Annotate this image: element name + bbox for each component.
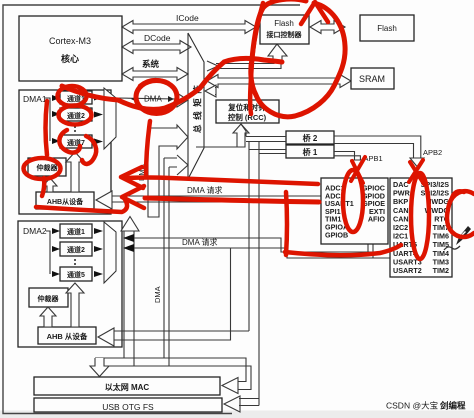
DMA2 channel 1 box bbox=[60, 224, 92, 238]
SRAM box bbox=[351, 68, 394, 89]
red long S stroke under DMA circle rising through matrix bbox=[62, 58, 282, 109]
pair B vertical lines bbox=[164, 158, 177, 366]
matrix left arrowhead a bbox=[177, 93, 188, 107]
DMA2 channel 5 box bbox=[60, 267, 92, 281]
svg-text:桥 1: 桥 1 bbox=[303, 147, 318, 157]
outer frame bbox=[3, 5, 300, 414]
svg-text:通道2: 通道2 bbox=[67, 111, 85, 120]
down arrow into MAC bbox=[90, 358, 109, 377]
DMA1 channel 2 box bbox=[60, 108, 92, 121]
horizontal lines to MAC down arrow and AHB verticals bbox=[95, 358, 251, 390]
DMA2 AHB slave box bbox=[38, 327, 96, 344]
red loop arbiter1 bbox=[24, 158, 61, 179]
Flash box bbox=[360, 15, 414, 41]
red loop channel1 bbox=[58, 86, 87, 106]
matrix right arrow 1 to flash controller wire bbox=[207, 61, 218, 71]
red vertical DMA circle to L1 bbox=[146, 121, 150, 176]
arrows channels to funnel bbox=[94, 228, 103, 277]
bridge1 left wires bbox=[249, 150, 286, 154]
DCode bus arrow bbox=[122, 41, 191, 54]
red big loop around flash controller bbox=[251, 0, 345, 117]
bridge 2 box bbox=[286, 131, 334, 144]
svg-text:仲裁器: 仲裁器 bbox=[38, 294, 60, 303]
svg-text:通道1: 通道1 bbox=[67, 227, 85, 236]
red circle O3 right edge bbox=[447, 191, 474, 237]
Cortex-M3 core box bbox=[19, 16, 122, 81]
APB1 down arrow bbox=[351, 160, 363, 169]
svg-text:DMA 请求: DMA 请求 bbox=[182, 237, 218, 247]
DMA2 up arrow AHB to arbiter bbox=[40, 307, 56, 327]
APB peripherals left box bbox=[321, 178, 388, 244]
Flash ctrl - Flash double arrow bbox=[310, 21, 345, 34]
bridge2 to APB2 wires bbox=[334, 136, 421, 158]
red arcs around channel7 bbox=[59, 130, 80, 153]
MAC left arrow bbox=[222, 378, 238, 394]
APB2 down arrow bbox=[410, 158, 424, 167]
svg-text:Flash: Flash bbox=[274, 19, 294, 28]
svg-text:DCode: DCode bbox=[144, 33, 171, 43]
red hook above O3 bbox=[452, 191, 464, 198]
DMA2 box bbox=[18, 221, 122, 347]
DMA1 AHB slave box bbox=[36, 192, 94, 209]
RCC box bbox=[216, 100, 279, 123]
up arrowhead below elbow bbox=[121, 217, 139, 232]
arrows into channels bbox=[52, 228, 60, 277]
svg-text:通道2: 通道2 bbox=[67, 245, 85, 254]
svg-text:CSDN @大宝: CSDN @大宝 bbox=[386, 401, 438, 411]
DMA1 up arrow AHB to arbiter bbox=[43, 178, 57, 192]
DMA request line pair 2 bbox=[132, 238, 390, 258]
svg-text:控制 (RCC): 控制 (RCC) bbox=[228, 112, 267, 122]
ICode bus arrow bbox=[122, 21, 256, 34]
DMA1 channel 7 box bbox=[60, 135, 92, 148]
USB left arrow bbox=[224, 396, 240, 412]
svg-text:剑编程: 剑编程 bbox=[439, 401, 466, 411]
svg-text:系统: 系统 bbox=[142, 59, 160, 69]
svg-text:核心: 核心 bbox=[61, 53, 79, 64]
svg-text:Cortex-M3: Cortex-M3 bbox=[49, 36, 91, 46]
dots bbox=[74, 259, 76, 261]
DMA2 master bus vertical pair bbox=[124, 231, 134, 366]
svg-text:接口控制器: 接口控制器 bbox=[267, 30, 303, 39]
red oval O1 on left periph box bbox=[343, 170, 363, 232]
svg-text:GPIOB: GPIOB bbox=[325, 230, 348, 239]
DMA2 channel 2 box bbox=[60, 242, 92, 256]
DMA2 arbiter box bbox=[29, 288, 68, 307]
ethernet MAC box bbox=[34, 377, 220, 395]
svg-text:通道7: 通道7 bbox=[67, 138, 85, 147]
svg-text:Flash: Flash bbox=[377, 24, 397, 33]
red tail of L2 into AHB slave bbox=[36, 198, 127, 212]
USB OTG FS box bbox=[34, 398, 222, 412]
svg-text:DMA1: DMA1 bbox=[23, 94, 47, 104]
DMA1 channel 1 box bbox=[60, 91, 92, 104]
RCC up arrow from below bbox=[233, 124, 249, 147]
arrows channels to funnel bbox=[94, 95, 103, 145]
bridge1 to APB1 wires bbox=[334, 152, 360, 161]
svg-text:桥 2: 桥 2 bbox=[303, 133, 318, 143]
red X at APB1 arrow bbox=[351, 157, 365, 183]
red stroke arbiter tail down bbox=[42, 178, 44, 196]
bus matrix bbox=[188, 33, 204, 179]
red vertical branch at 286 down to under-box stroke bbox=[286, 192, 287, 255]
bridge2 left wires bbox=[246, 137, 286, 142]
svg-text:以太网 MAC: 以太网 MAC bbox=[105, 382, 150, 392]
red inner left stroke + tail into RCC bbox=[250, 3, 263, 114]
DMA label bus from DMA1 funnel to matrix bbox=[116, 98, 177, 99]
svg-text:通道5: 通道5 bbox=[67, 270, 85, 279]
matrix-SRAM double arrow bbox=[207, 75, 351, 88]
Flash interface controller box bbox=[260, 15, 309, 44]
hollow left arrow into DMA1 AHB slave bbox=[96, 191, 112, 209]
red X at APB2 arrow bbox=[409, 160, 424, 184]
svg-text:仲裁器: 仲裁器 bbox=[37, 163, 59, 172]
red oval O2 on right periph box bbox=[411, 173, 429, 259]
APB peripherals right box bbox=[390, 178, 452, 277]
vertical line x230 to DMA2 AHB arrow bbox=[114, 248, 249, 340]
svg-text:AFIO: AFIO bbox=[368, 215, 386, 224]
svg-text:DMA2: DMA2 bbox=[23, 226, 47, 236]
arrows into channels bbox=[52, 95, 60, 144]
red vertical left in DMA1 bbox=[46, 101, 48, 155]
dots bbox=[74, 126, 76, 128]
matrix left arrowhead b with elbow from DMA1 bbox=[148, 125, 188, 217]
svg-text:SRAM: SRAM bbox=[359, 74, 385, 84]
drop from left periph box bottom bbox=[368, 244, 373, 258]
svg-text:DMA: DMA bbox=[144, 95, 162, 104]
svg-text:ICode: ICode bbox=[176, 13, 199, 23]
red peak at top bbox=[301, 2, 328, 24]
DMA1 box bbox=[19, 90, 111, 214]
svg-text:DMA 请求: DMA 请求 bbox=[187, 185, 223, 195]
flash controller up arrow bbox=[268, 44, 287, 60]
DMA1 funnel bbox=[104, 88, 116, 149]
svg-text:APB2: APB2 bbox=[423, 148, 442, 157]
red circle around DMA label bbox=[136, 81, 177, 114]
bridge 1 box bbox=[286, 145, 334, 158]
AHB vertical bus pair down right bbox=[249, 142, 259, 406]
diagonal below RCC bbox=[241, 124, 246, 137]
matrix left arrowhead c with elbow pair B bbox=[177, 155, 188, 175]
svg-text:USART2: USART2 bbox=[393, 266, 422, 275]
system bus arrow bbox=[122, 68, 188, 81]
red long arrow L1 bbox=[126, 178, 318, 185]
DMA request line pair 1 bbox=[112, 196, 321, 202]
matrix right arrow 3 to RCC bbox=[205, 85, 216, 97]
DMA1 up arrow AHB to funnel bbox=[66, 152, 84, 192]
svg-text:TIM2: TIM2 bbox=[433, 266, 449, 275]
svg-text:AHB从设备: AHB从设备 bbox=[47, 197, 84, 206]
DMA2 funnel bbox=[104, 222, 116, 283]
hollow left arrow into DMA2 AHB slave bbox=[98, 328, 114, 346]
red stroke under right box bbox=[285, 245, 401, 255]
svg-text:AHB 从设备: AHB 从设备 bbox=[47, 331, 88, 341]
DMA1 arbiter box bbox=[28, 158, 66, 176]
DMA1 channel feed line bbox=[45, 98, 50, 141]
solid arrowheads pair2 bbox=[123, 234, 134, 252]
DMA2 up arrow AHB to funnel bbox=[66, 283, 84, 327]
DMA2 channel feed line bbox=[46, 231, 50, 274]
red loop channel2 bbox=[59, 106, 92, 125]
svg-text:DMA: DMA bbox=[153, 286, 162, 303]
pencil cursor bbox=[444, 226, 471, 250]
red long arrow L2 bbox=[145, 198, 319, 202]
svg-text:USB OTG FS: USB OTG FS bbox=[102, 402, 154, 412]
watermark strip bbox=[0, 411, 474, 418]
